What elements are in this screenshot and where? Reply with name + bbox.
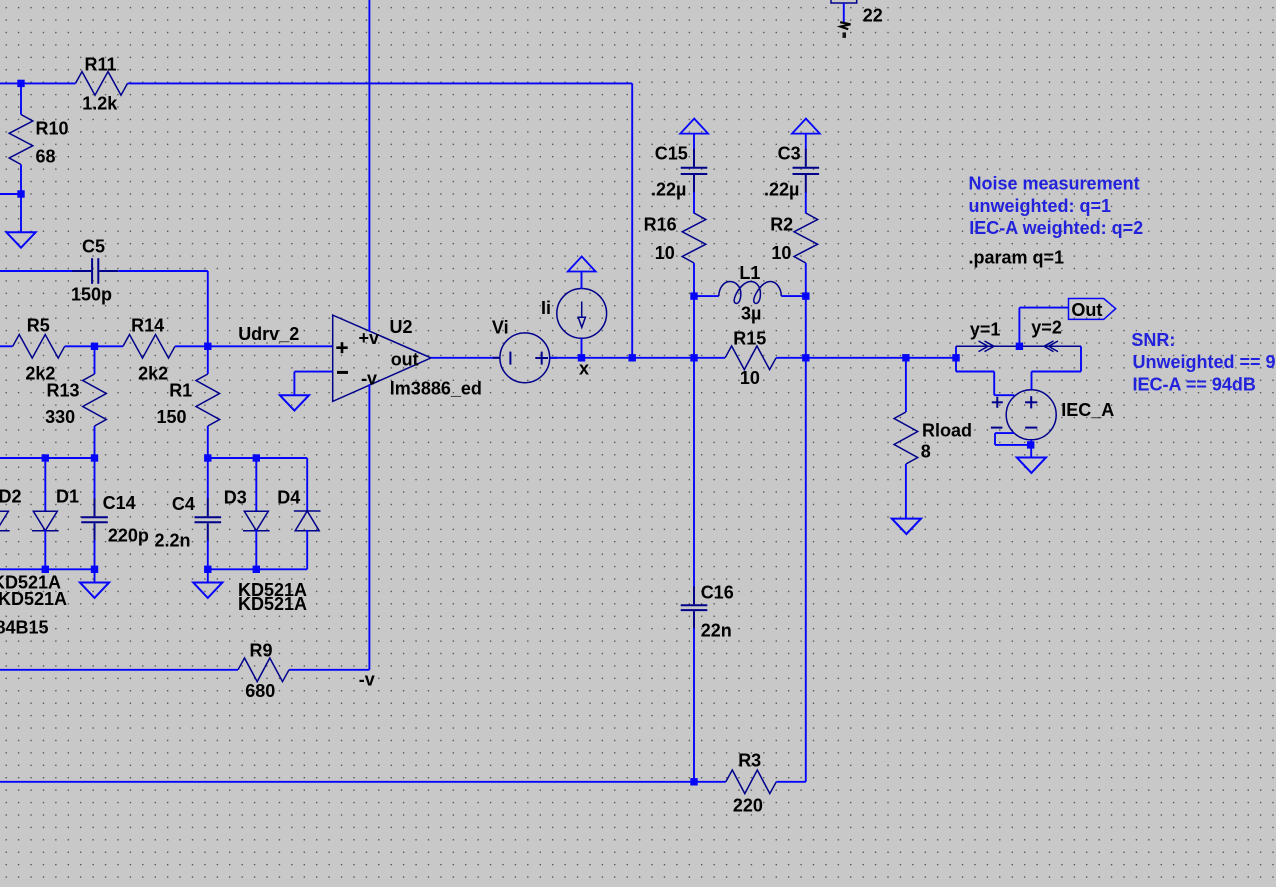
svg-text:.22µ: .22µ xyxy=(764,179,799,199)
svg-text:22n: 22n xyxy=(701,620,732,640)
wire clipped component lead xyxy=(843,3,845,22)
wire L1 right lead xyxy=(781,295,806,297)
resistor Rload xyxy=(894,412,918,464)
junction L1 left node xyxy=(690,292,697,299)
svg-text:Vi: Vi xyxy=(492,317,509,337)
wire control bottom to output xyxy=(995,444,1031,446)
wire R10 top lead xyxy=(20,83,22,114)
junction D1 top xyxy=(42,454,49,461)
svg-text:2k2: 2k2 xyxy=(138,363,168,383)
wire to Out port xyxy=(1018,308,1020,347)
svg-text:220: 220 xyxy=(733,796,763,816)
wire C15 to R16 xyxy=(693,192,695,214)
capacitor C4 xyxy=(195,498,222,541)
ground below C4 xyxy=(193,583,222,598)
inductor L1 xyxy=(719,282,782,304)
wire diode rail bottom left xyxy=(0,568,95,570)
wire control top lead xyxy=(994,394,1014,396)
svg-text:KD521A: KD521A xyxy=(0,589,67,609)
svg-text:330: 330 xyxy=(45,407,75,427)
diode D2 xyxy=(0,511,10,530)
svg-text:1.2k: 1.2k xyxy=(82,93,118,113)
svg-text:x: x xyxy=(579,359,589,379)
svg-text:Udrv_2: Udrv_2 xyxy=(238,324,299,344)
power flag above Ii xyxy=(568,257,596,272)
wire C5 left xyxy=(0,270,73,272)
power flag above C15 xyxy=(680,119,708,134)
wire Rload top lead xyxy=(905,358,907,412)
wire L1 left lead xyxy=(694,295,719,297)
wire into IEC_A top xyxy=(1031,372,1033,390)
wire control bottom lead xyxy=(995,432,1014,434)
diode D3 xyxy=(243,511,270,530)
wire stub left at R10 bottom xyxy=(0,193,21,195)
wire C14 bottom lead xyxy=(94,540,96,583)
capacitor C14 xyxy=(81,498,108,541)
svg-text:10: 10 xyxy=(655,243,675,263)
svg-text:IEC_A: IEC_A xyxy=(1061,400,1114,420)
wire flag to C15 xyxy=(693,134,695,150)
wire -v supply down xyxy=(368,384,370,670)
wire R5 to R14 xyxy=(65,345,123,347)
resistor R16 xyxy=(682,213,706,263)
wire D4 bottom lead xyxy=(306,530,308,569)
wire diode rail top right xyxy=(208,457,307,459)
capacitor C3 xyxy=(793,149,820,193)
svg-text:R14: R14 xyxy=(131,315,164,335)
svg-text:IEC-A weighted: q=2: IEC-A weighted: q=2 xyxy=(969,218,1143,238)
svg-text:Noise measurement: Noise measurement xyxy=(969,174,1140,194)
wire y2 down xyxy=(1080,346,1082,371)
ground below R10 xyxy=(6,232,35,247)
svg-text:22: 22 xyxy=(863,6,883,26)
svg-text:KD521A: KD521A xyxy=(238,594,307,614)
junction bottom node xyxy=(690,778,697,785)
svg-text:3µ: 3µ xyxy=(741,303,761,323)
wire D1 top lead xyxy=(44,458,46,511)
resistor R10 xyxy=(9,115,33,165)
wire C14 top lead xyxy=(94,458,96,499)
junction C14 top xyxy=(91,454,98,461)
wire top rail left of R11 xyxy=(0,82,76,84)
svg-text:220p: 220p xyxy=(108,526,149,546)
svg-text:D3: D3 xyxy=(224,488,247,508)
wire R13 bottom lead xyxy=(94,426,96,458)
wire C16 column xyxy=(693,358,695,587)
ground at op-amp minus input xyxy=(280,395,309,410)
diode D4 xyxy=(294,511,321,531)
junction C4 top xyxy=(204,454,211,461)
junction L1 right node xyxy=(802,292,809,299)
wire R14 to op-amp plus input xyxy=(175,345,333,347)
junction Rload node xyxy=(902,354,909,361)
junction IEC_A output node xyxy=(1027,441,1034,448)
junction C4 bottom xyxy=(204,566,211,573)
wire minus input xyxy=(294,371,332,373)
junction D1 bottom xyxy=(42,566,49,573)
junction C15 column at main line xyxy=(690,354,697,361)
wire y2 horizontal xyxy=(1032,371,1082,373)
resistor R15 xyxy=(725,346,776,370)
junction arrow line mid node xyxy=(1016,343,1023,350)
wire D3 bottom lead xyxy=(255,530,257,569)
wire control bottom drop xyxy=(994,433,996,445)
op-amp U2 xyxy=(333,315,431,401)
wire C4 bottom lead xyxy=(207,540,209,583)
wire flag to C3 xyxy=(805,134,807,150)
wire R1 top lead xyxy=(207,346,209,374)
svg-text:R5: R5 xyxy=(27,315,50,335)
wire R10 bottom lead xyxy=(20,165,22,233)
svg-text:680: 680 xyxy=(245,681,275,701)
svg-text:Ii: Ii xyxy=(541,298,551,318)
capacitor C16 xyxy=(681,586,708,629)
junction feedback at node x line xyxy=(629,354,636,361)
wire R9 left to edge xyxy=(0,669,238,671)
svg-text:Out: Out xyxy=(1071,300,1102,320)
wire R16 to L1 node xyxy=(693,263,695,358)
svg-text:C15: C15 xyxy=(655,144,688,164)
junction R10 bottom node xyxy=(17,190,24,197)
svg-text:R3: R3 xyxy=(738,750,761,770)
capacitor C5 xyxy=(72,258,118,284)
resistor R13 xyxy=(83,374,107,426)
wire Rload bottom lead xyxy=(905,464,907,519)
wire op-amp out to Vi xyxy=(431,357,500,359)
e-source IEC_A xyxy=(991,390,1056,440)
junction R5-R13 node xyxy=(91,343,98,350)
svg-text:Unweighted == 91dB: Unweighted == 91dB xyxy=(1133,352,1276,372)
wire R1 bottom lead xyxy=(207,426,209,458)
wire C4 top lead xyxy=(207,458,209,499)
junction D3 bottom xyxy=(253,566,260,573)
junction D3 top xyxy=(253,454,260,461)
junction R10 top node xyxy=(17,80,24,87)
svg-text:.22µ: .22µ xyxy=(651,179,686,199)
svg-text:68: 68 xyxy=(36,146,56,166)
wire C5 right xyxy=(119,270,208,272)
svg-text:D2: D2 xyxy=(0,487,22,507)
svg-text:2.2n: 2.2n xyxy=(155,530,191,550)
svg-text:y=1: y=1 xyxy=(970,320,1001,340)
svg-text:D4: D4 xyxy=(277,488,300,508)
wire C3 to R2 xyxy=(805,192,807,214)
wire Vi to R15 xyxy=(550,357,725,359)
svg-text:L1: L1 xyxy=(739,263,760,283)
current source Ii xyxy=(557,289,607,339)
svg-text:SNR:: SNR: xyxy=(1131,330,1175,350)
wire R9 right lead from -v xyxy=(289,669,369,671)
svg-text:D1: D1 xyxy=(56,487,79,507)
wire control drop xyxy=(993,372,995,396)
svg-text:84B15: 84B15 xyxy=(0,618,49,638)
junction Udrv_2 node xyxy=(204,343,211,350)
resistor R5 xyxy=(13,335,65,359)
svg-text:150: 150 xyxy=(157,407,187,427)
svg-text:R10: R10 xyxy=(36,119,69,139)
junction node x xyxy=(578,354,585,361)
wire control top horizontal xyxy=(956,371,994,373)
svg-text:-v: -v xyxy=(359,670,375,690)
junction C3 column at main line xyxy=(802,354,809,361)
svg-text:R16: R16 xyxy=(644,214,677,234)
junction main line end node xyxy=(952,354,959,361)
svg-text:IEC-A == 94dB: IEC-A == 94dB xyxy=(1133,374,1256,394)
wire R15 to end node xyxy=(776,357,956,359)
junction C14 bottom xyxy=(91,566,98,573)
svg-text:R1: R1 xyxy=(169,380,192,400)
resistor R14 xyxy=(123,335,175,359)
svg-text:unweighted: q=1: unweighted: q=1 xyxy=(969,196,1112,216)
resistor R2 xyxy=(794,213,818,263)
wire R13 top lead xyxy=(94,346,96,374)
svg-text:R13: R13 xyxy=(47,380,80,400)
wire +v supply from top xyxy=(368,0,370,331)
wire feedback vertical drop xyxy=(631,83,633,357)
svg-text:C4: C4 xyxy=(172,494,195,514)
wire diode rail top left xyxy=(0,457,95,459)
capacitor C15 xyxy=(681,149,708,193)
resistor R9 xyxy=(238,658,289,682)
arrow line y=1 y=2 xyxy=(956,341,1081,352)
svg-text:R15: R15 xyxy=(733,328,766,348)
ground below C14 xyxy=(80,583,109,598)
svg-text:C5: C5 xyxy=(82,237,105,257)
svg-text:R11: R11 xyxy=(85,54,117,74)
wire R3 to riser corner xyxy=(776,781,806,783)
diode D1 xyxy=(32,511,59,530)
svg-text:C16: C16 xyxy=(701,583,734,603)
wire top rail R11 to feedback corner xyxy=(128,82,633,84)
power flag above C3 xyxy=(792,119,820,134)
wire to Out port horizontal xyxy=(1019,307,1068,309)
svg-text:y=2: y=2 xyxy=(1031,318,1062,338)
wire Ii bottom lead xyxy=(581,338,583,358)
wire stub left of R5 xyxy=(0,345,13,347)
resistor R11 xyxy=(76,72,128,96)
resistor R3 xyxy=(726,770,777,794)
wire R2 down through main line to R3 corner xyxy=(805,263,807,782)
wire diode rail bottom right xyxy=(208,568,307,570)
svg-text:.param q=1: .param q=1 xyxy=(969,247,1065,267)
wire D4 top lead xyxy=(306,458,308,511)
clipped component box top edge xyxy=(831,0,857,3)
svg-text:150p: 150p xyxy=(71,284,112,304)
wire C16 to bottom line xyxy=(693,628,695,782)
wire Ii top lead xyxy=(581,272,583,289)
svg-text:out: out xyxy=(391,350,419,370)
wire IEC_A bottom pin xyxy=(1030,440,1032,458)
wire D1 bottom lead xyxy=(44,530,46,569)
svg-text:R9: R9 xyxy=(250,641,273,661)
port flag Out xyxy=(1069,299,1116,320)
wire D3 top lead xyxy=(255,458,257,511)
svg-text:Rload: Rload xyxy=(922,421,972,441)
svg-text:U2: U2 xyxy=(390,317,413,337)
svg-text:8: 8 xyxy=(921,442,931,462)
svg-text:lm3886_ed: lm3886_ed xyxy=(390,379,482,399)
svg-text:10: 10 xyxy=(740,368,760,388)
svg-text:C14: C14 xyxy=(103,493,136,513)
resistor R1 xyxy=(196,374,220,426)
voltage source Vi xyxy=(493,333,557,383)
svg-text:C3: C3 xyxy=(778,144,801,164)
svg-text:10: 10 xyxy=(771,243,791,263)
svg-text:R2: R2 xyxy=(770,214,793,234)
wire bottom line xyxy=(0,781,726,783)
clipped label squiggle xyxy=(840,22,850,29)
wire C5 down to input node xyxy=(207,271,209,346)
ground below Rload xyxy=(892,519,921,534)
ground below IEC_A xyxy=(1017,458,1046,473)
wire riser to arrow line xyxy=(955,346,957,371)
wire minus input drop xyxy=(293,372,295,396)
